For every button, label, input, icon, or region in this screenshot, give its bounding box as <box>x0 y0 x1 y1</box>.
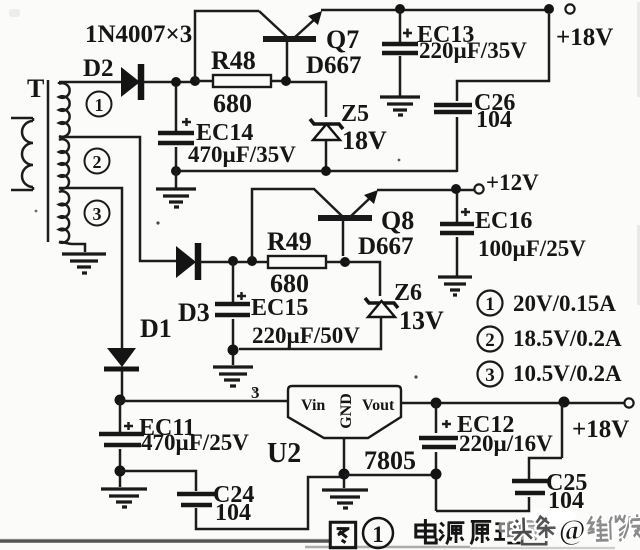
svg-text:18V: 18V <box>342 126 387 155</box>
wire EC11 node to C24 <box>120 471 196 491</box>
wire D3 cathode to node B <box>200 261 268 264</box>
wire Z6 anode to EC15 node <box>239 317 381 349</box>
node EC11 bottom <box>115 466 126 477</box>
svg-text:D667: D667 <box>358 233 414 260</box>
svg-text:Z6: Z6 <box>394 280 422 306</box>
junction dot +18V <box>544 4 554 14</box>
watermark white glow <box>528 508 576 524</box>
caption 源 <box>439 523 464 545</box>
svg-text:D3: D3 <box>178 298 210 327</box>
svg-text:3: 3 <box>251 383 260 402</box>
watermark 维 <box>587 516 609 541</box>
wire Q8 base <box>342 221 345 256</box>
node R49 right / Q8 base <box>340 257 350 267</box>
resistor R49 <box>268 256 326 268</box>
wire D2 cathode to node A <box>143 81 196 84</box>
svg-text:470µF/35V: 470µF/35V <box>188 142 296 167</box>
watermark 人 <box>623 516 638 538</box>
regulator U2 7805 body <box>288 386 401 438</box>
svg-text:220µF/50V: 220µF/50V <box>252 323 360 348</box>
caption 电 <box>416 519 436 543</box>
svg-text:EC16: EC16 <box>475 208 532 234</box>
svg-text:470µF/25V: 470µF/25V <box>141 430 249 455</box>
output list item 2 <box>478 327 503 352</box>
capacitor C26 <box>434 105 472 112</box>
output list item 1 <box>478 291 503 316</box>
transistor Q8 <box>318 215 372 221</box>
svg-text:U2: U2 <box>267 438 301 469</box>
wire node B up to Q8 collector <box>252 189 342 260</box>
watermark 修 <box>609 515 628 541</box>
svg-text:Z5: Z5 <box>341 101 369 127</box>
watermark 条 <box>536 515 556 538</box>
transformer T core <box>47 80 50 242</box>
wire Q7 base <box>286 42 289 78</box>
wire tap2 down to D1 <box>59 188 122 348</box>
capacitor C24 <box>177 494 216 505</box>
svg-text:2: 2 <box>485 330 495 351</box>
node EC15 bottom <box>228 345 239 356</box>
junction dot EC16 <box>451 184 461 194</box>
node input rail <box>115 395 126 406</box>
svg-text:1: 1 <box>95 95 104 115</box>
svg-text:GND: GND <box>338 393 355 429</box>
svg-text:20V/0.15A: 20V/0.15A <box>513 291 616 316</box>
output list item 3 <box>478 362 503 387</box>
svg-text:Vin: Vin <box>301 397 325 414</box>
+12V rail <box>377 189 474 192</box>
svg-text:220µF/35V: 220µF/35V <box>419 38 527 63</box>
transistor Q7 <box>259 11 287 37</box>
bottom ground rail to EC12 <box>344 474 436 477</box>
capacitor C26 wiring from +18V rail <box>457 14 549 172</box>
caption 图 (overlapped) <box>522 521 546 544</box>
svg-text:T: T <box>27 74 44 103</box>
ground (transformer) <box>62 254 106 273</box>
wire tap1 to D3 anode <box>59 137 176 261</box>
watermark 头 <box>511 517 532 540</box>
svg-text:D2: D2 <box>83 55 114 82</box>
svg-text:+18V: +18V <box>572 416 629 443</box>
svg-text:1: 1 <box>372 522 384 547</box>
ground (EC16) <box>438 277 472 295</box>
junction dot +18V bottom <box>559 397 570 408</box>
svg-text:3: 3 <box>485 365 495 386</box>
wire R49 node to Z6 <box>345 262 380 296</box>
scan smudge top-left <box>9 9 20 17</box>
terminal +18V top <box>565 4 574 13</box>
wire C24 to U2 ground node <box>196 477 341 529</box>
svg-text:3: 3 <box>93 204 102 224</box>
svg-text:18.5V/0.2A: 18.5V/0.2A <box>513 326 622 351</box>
svg-text:R49: R49 <box>267 227 312 256</box>
wire D1 to input node <box>121 371 124 400</box>
node A dots <box>171 77 181 87</box>
zener Z5 <box>310 119 343 129</box>
junction dot EC12 top <box>431 398 442 409</box>
capacitor EC11 <box>119 401 122 487</box>
+18V top rail <box>321 9 549 12</box>
svg-text:13V: 13V <box>399 306 444 335</box>
node EC12 bottom <box>431 469 442 480</box>
node R48 right / Q7 base <box>281 76 291 86</box>
caption 原 <box>471 521 491 544</box>
ground (EC11) <box>101 489 147 507</box>
junction dot EC13 <box>395 4 405 14</box>
svg-text:+18V: +18V <box>556 24 613 51</box>
ground (U2) <box>322 490 368 508</box>
wire node A up to Q7 collector rail <box>195 11 259 80</box>
svg-text:100µF/25V: 100µF/25V <box>478 236 586 261</box>
svg-text:EC15: EC15 <box>251 295 308 321</box>
svg-text:104: 104 <box>215 500 251 526</box>
wire U2 GND pin <box>343 438 346 488</box>
terminal +12V <box>474 184 483 193</box>
svg-text:Q7: Q7 <box>326 25 359 54</box>
capacitor EC16 <box>456 193 459 276</box>
wire winding3 bottom to ground <box>59 242 85 252</box>
svg-text:R48: R48 <box>211 46 256 75</box>
winding 3 number <box>85 201 110 226</box>
wire Z5 anode to ground rail <box>325 140 328 171</box>
svg-text:Vout: Vout <box>362 397 395 414</box>
svg-text:680: 680 <box>213 89 252 118</box>
ground rail (EC14/Z5/C26) <box>176 170 457 173</box>
torn scan edge bottom <box>0 539 330 542</box>
caption circled 1 <box>363 518 393 548</box>
ground (EC15) <box>213 367 253 386</box>
scan streak right edge <box>637 2 640 97</box>
capacitor EC12 <box>435 403 438 511</box>
capacitor C25 <box>512 481 548 493</box>
svg-text:104: 104 <box>476 107 512 133</box>
svg-text:@: @ <box>558 514 586 547</box>
svg-text:2: 2 <box>93 152 102 172</box>
capacitor EC15 <box>232 262 235 365</box>
svg-text:D667: D667 <box>306 52 362 79</box>
ground (EC14) <box>156 189 196 207</box>
svg-text:7805: 7805 <box>364 446 416 475</box>
wire R48 node to Z5 <box>290 82 326 117</box>
winding 3 <box>59 191 69 243</box>
transformer T secondary winding 1 <box>59 82 70 137</box>
zener Z6 <box>365 298 398 308</box>
svg-text:D1: D1 <box>140 314 172 343</box>
output rail +18V bottom <box>401 402 629 405</box>
svg-text:Q8: Q8 <box>381 206 414 235</box>
svg-text:+12V: +12V <box>486 170 539 195</box>
wire winding1 top to D2 anode <box>59 81 121 84</box>
winding 2 number <box>85 149 110 174</box>
svg-text:680: 680 <box>270 269 309 298</box>
caption 理 <box>494 523 520 543</box>
input rail to U2 Vin <box>120 400 288 403</box>
caption 图 <box>330 522 355 547</box>
svg-text:10.5V/0.2A: 10.5V/0.2A <box>513 361 622 386</box>
resistor R48 <box>196 80 286 83</box>
transformer T primary winding <box>11 118 33 190</box>
terminal +18V bottom <box>624 398 633 407</box>
svg-text:1: 1 <box>485 294 495 315</box>
capacitor EC13 <box>399 10 402 96</box>
svg-text:220µ/16V: 220µ/16V <box>459 431 553 456</box>
svg-text:1N4007×3: 1N4007×3 <box>85 21 192 48</box>
winding 2 <box>59 139 69 189</box>
node B dots <box>228 256 238 266</box>
wire to C25 <box>436 403 562 511</box>
node U2 ground <box>339 469 350 480</box>
ground (EC13) <box>380 97 420 115</box>
capacitor EC14 <box>175 86 178 188</box>
watermark 家 <box>631 514 640 539</box>
winding 1 number <box>87 92 112 117</box>
scan specks <box>156 221 159 224</box>
